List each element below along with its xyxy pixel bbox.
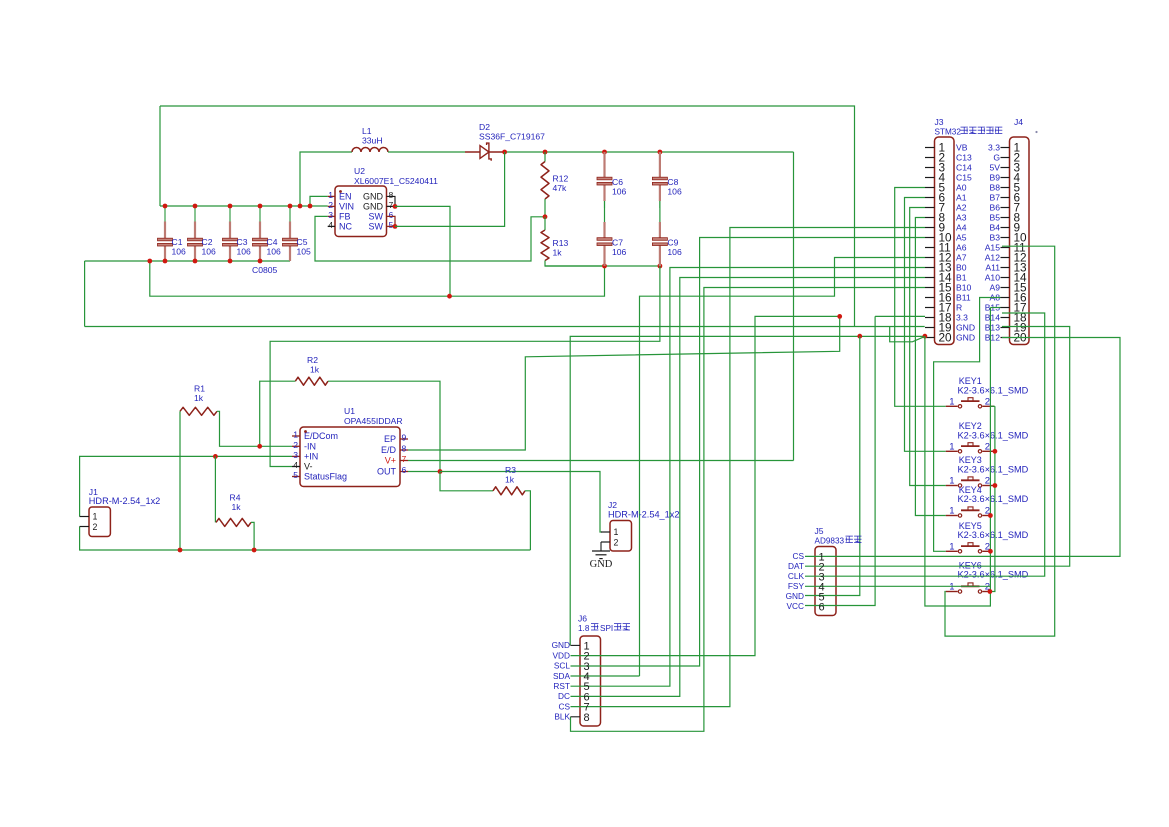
U2 pins 5-8 right — [363, 190, 394, 232]
switch KEY6 — [946, 583, 991, 593]
svg-text:1.8: 1.8 — [578, 624, 590, 633]
capacitor C1 — [158, 206, 173, 261]
svg-text:J5: J5 — [815, 526, 824, 536]
svg-text:VIN: VIN — [339, 201, 354, 211]
svg-text:A5: A5 — [956, 233, 967, 243]
wire cap bottom bus GND — [85, 260, 290, 262]
svg-text:GND: GND — [786, 591, 804, 601]
diode D2 — [465, 143, 505, 161]
wire J2 pin2 to ground — [600, 542, 602, 551]
svg-text:AD9833: AD9833 — [815, 537, 845, 546]
U1 pin1 indicator dot — [304, 430, 307, 433]
J1 pin stubs — [80, 517, 89, 527]
svg-text:5V: 5V — [989, 163, 1000, 173]
wire C8-C9 mid link — [659, 201, 661, 222]
wire FB feedback — [315, 216, 545, 261]
capacitor C3 — [223, 206, 238, 261]
wire J3.6 A1 to KEY2 — [905, 198, 946, 452]
svg-text:A0: A0 — [956, 183, 967, 193]
svg-text:6: 6 — [819, 601, 825, 613]
J3 pin numbers — [939, 141, 953, 345]
svg-text:U1: U1 — [344, 406, 355, 416]
svg-text:1: 1 — [949, 442, 954, 453]
svg-text:A9: A9 — [989, 283, 1000, 293]
capacitor C5 — [283, 206, 298, 261]
J2 pin stubs — [601, 532, 610, 542]
J2 pin numbers — [614, 527, 619, 547]
junction dots output rail — [502, 150, 662, 155]
wire boost output to V+ drop — [793, 152, 795, 461]
svg-text:1k: 1k — [505, 474, 515, 484]
svg-text:B9: B9 — [989, 173, 1000, 183]
wire OUT stub to dot — [408, 471, 440, 473]
svg-text:2: 2 — [985, 442, 990, 453]
junction dot U2 pin5 — [393, 224, 398, 229]
wire R13 bottom lead — [545, 261, 605, 267]
svg-text:K2-3.6×6.1_SMD: K2-3.6×6.1_SMD — [958, 385, 1029, 395]
capacitor C4 — [253, 206, 268, 261]
svg-text:47k: 47k — [553, 183, 568, 193]
wire J4.20 B12 to J5 CS — [805, 338, 1120, 557]
connector J5 body — [815, 547, 836, 616]
svg-text:B0: B0 — [956, 263, 967, 273]
junction dot bus296 at x450 — [447, 294, 452, 299]
svg-text:106: 106 — [667, 186, 682, 196]
svg-text:7: 7 — [402, 454, 407, 464]
junction dot U2 pin7 — [393, 204, 398, 209]
wire bus296 right segment A7-SDA net — [640, 258, 926, 677]
svg-text:SW: SW — [369, 211, 384, 221]
svg-text:A7: A7 — [956, 253, 967, 263]
J3 net name labels — [956, 143, 975, 343]
svg-text:XL6007E1_C5240411: XL6007E1_C5240411 — [354, 176, 438, 186]
svg-text:FSY: FSY — [788, 581, 805, 591]
wire bus266 GND — [545, 265, 660, 267]
U2 pin5 stub — [387, 225, 396, 227]
IC U2 XL6007E1 body — [335, 186, 387, 237]
svg-text:SS36F_C719167: SS36F_C719167 — [479, 132, 545, 142]
svg-text:K2-3.6×6.1_SMD: K2-3.6×6.1_SMD — [958, 464, 1029, 474]
wire J3.14 B1 to J6 DC — [571, 278, 926, 697]
J4 net name labels — [985, 143, 1001, 343]
wire rail left drop — [159, 106, 161, 206]
svg-text:1k: 1k — [232, 502, 242, 512]
value J5 AD9833 module label — [815, 536, 862, 545]
svg-text:EP: EP — [384, 434, 396, 444]
value J3 STM32 board label — [935, 127, 1003, 136]
svg-text:3: 3 — [293, 450, 298, 460]
svg-text:STM32: STM32 — [935, 128, 962, 137]
wire J3.12 A7 to J6 SDA — [571, 675, 640, 677]
svg-text:4: 4 — [293, 460, 298, 470]
svg-text:9: 9 — [402, 433, 407, 443]
wire J3.19 GND bus326 — [85, 326, 925, 328]
wire U2 GND pins 8-7 link — [387, 196, 396, 206]
wire L1 feed riser — [300, 152, 352, 206]
junction dots key pin2 column — [988, 449, 998, 594]
wire R13 top lead — [544, 217, 546, 230]
wire GND left drop to bus326 — [84, 261, 86, 327]
svg-text:A4: A4 — [956, 223, 967, 233]
resistor R3 — [493, 487, 525, 495]
wire KEY5 pin1 to J4 A8 — [934, 298, 1001, 552]
junction dot -IN — [257, 444, 262, 449]
J4 pin stubs — [1001, 148, 1010, 338]
wire R1 left to GND bus — [179, 411, 181, 550]
svg-text:GND: GND — [552, 640, 570, 650]
svg-text:FB: FB — [339, 211, 351, 221]
svg-text:6: 6 — [402, 465, 407, 475]
svg-text:A11: A11 — [985, 263, 1000, 273]
svg-text:NC: NC — [339, 221, 352, 231]
junction dot R12-R13 divider — [543, 214, 548, 219]
svg-text:1: 1 — [949, 506, 954, 517]
svg-text:D2: D2 — [479, 122, 490, 132]
wire J3.15 B10 to J6 BLK — [571, 288, 926, 732]
svg-text:8: 8 — [584, 712, 590, 724]
svg-text:1: 1 — [328, 190, 333, 200]
svg-text:HDR-M-2.54_1x2: HDR-M-2.54_1x2 — [608, 510, 679, 520]
resistor R2 — [295, 377, 328, 385]
svg-text:G: G — [993, 153, 1000, 163]
ground symbol GND — [592, 551, 610, 559]
svg-text:K2-3.6×6.1_SMD: K2-3.6×6.1_SMD — [958, 570, 1029, 580]
svg-text:106: 106 — [202, 246, 217, 256]
wire V+ supply — [408, 460, 794, 462]
wire J3.18 3.3 row segment A — [571, 316, 840, 655]
J6 pin numbers — [584, 640, 590, 723]
wire J4 B15 stub link — [990, 307, 1000, 309]
svg-text:OUT: OUT — [377, 467, 397, 477]
svg-text:20: 20 — [939, 331, 953, 345]
svg-text:8: 8 — [389, 190, 394, 200]
junction dots bus550 — [178, 548, 257, 553]
svg-text:U2: U2 — [354, 166, 365, 176]
svg-text:DC: DC — [558, 691, 570, 701]
svg-text:5: 5 — [389, 220, 394, 230]
wire J3.10 A5 to J6 SCL — [571, 238, 926, 667]
wire KEY6 pin1 to J4 A15 — [945, 246, 1055, 636]
wire 3.3 branch to J5 VCC — [805, 316, 875, 605]
svg-text:VCC: VCC — [786, 601, 804, 611]
wire R3 right to GND bus — [525, 491, 530, 550]
wire key common to J3.20 GND — [925, 336, 991, 606]
svg-text:B8: B8 — [989, 183, 1000, 193]
J4 tiny dot — [1035, 131, 1037, 133]
svg-text:B14: B14 — [985, 313, 1001, 323]
wire cap top bus VIN — [160, 205, 328, 207]
wire analog GND bus550 — [80, 527, 531, 551]
wire OUT to R3 — [440, 472, 493, 491]
switch KEY5 — [946, 543, 991, 553]
svg-text:B5: B5 — [989, 213, 1000, 223]
wire V- net — [270, 266, 660, 467]
svg-text:K2-3.6×6.1_SMD: K2-3.6×6.1_SMD — [958, 530, 1029, 540]
svg-text:K2-3.6×6.1_SMD: K2-3.6×6.1_SMD — [958, 494, 1029, 504]
svg-text:B10: B10 — [956, 283, 972, 293]
wire L1 to D2 — [388, 151, 465, 153]
wire R12 bottom lead — [544, 199, 546, 217]
wire R12 top lead — [544, 152, 546, 162]
wire J3.18 3.3 row segment B — [875, 315, 925, 317]
resistor R13 — [541, 230, 549, 260]
wire OUT to J2 — [440, 472, 602, 533]
svg-text:A10: A10 — [985, 273, 1001, 283]
svg-text:B1: B1 — [956, 273, 967, 283]
switch KEY1 — [946, 398, 994, 408]
svg-text:1k: 1k — [310, 365, 320, 375]
wire J3.5 A0 to KEY1 — [895, 188, 946, 407]
U2 pin7 stub — [387, 205, 396, 207]
J3 pin stubs — [925, 148, 935, 338]
capacitor C7 — [597, 222, 612, 266]
svg-text:106: 106 — [612, 186, 627, 196]
switch KEY3 — [946, 477, 994, 487]
svg-text:1k: 1k — [553, 247, 563, 257]
svg-text:A6: A6 — [956, 243, 967, 253]
wire key2 net vertical B15 — [989, 308, 991, 592]
svg-text:B4: B4 — [989, 223, 1000, 233]
svg-text:VB: VB — [956, 143, 968, 153]
wire J3.13 B0 to J6 RST — [571, 268, 926, 687]
junction dots cap top bus — [163, 204, 313, 209]
svg-text:1: 1 — [614, 527, 619, 537]
svg-text:5: 5 — [293, 470, 298, 480]
switch KEY2 — [946, 443, 994, 453]
switch KEY4 — [946, 507, 991, 517]
wire C6-C7 mid link — [604, 201, 606, 222]
svg-text:106: 106 — [172, 246, 187, 256]
svg-text:1k: 1k — [194, 393, 204, 403]
svg-text:SCL: SCL — [554, 661, 571, 671]
connector J2 body — [610, 521, 632, 552]
value J6 SPI screen label — [578, 624, 630, 633]
svg-text:7: 7 — [389, 200, 394, 210]
svg-text:6: 6 — [389, 210, 394, 220]
svg-text:V-: V- — [304, 462, 313, 472]
svg-text:J3: J3 — [935, 117, 944, 127]
svg-text:C15: C15 — [956, 173, 972, 183]
J6 net name labels — [552, 640, 571, 721]
capacitor C8 — [652, 152, 667, 208]
wire key2 vertical B chain — [990, 406, 995, 591]
svg-text:106: 106 — [612, 247, 627, 257]
svg-text:2: 2 — [985, 476, 990, 487]
junction dot OUT — [438, 469, 443, 474]
U2 pins 1-4 left — [328, 190, 354, 232]
svg-text:1: 1 — [949, 476, 954, 487]
wire bus296 GND segment — [150, 261, 605, 296]
svg-text:1: 1 — [93, 512, 98, 522]
svg-text:B11: B11 — [956, 293, 971, 303]
svg-text:RST: RST — [553, 681, 570, 691]
svg-text:E/D: E/D — [381, 445, 397, 455]
svg-text:A12: A12 — [985, 253, 1001, 263]
svg-text:BLK: BLK — [554, 712, 570, 722]
J1 pin numbers — [93, 512, 98, 532]
wire J3.7 A2 to KEY3 — [910, 208, 946, 486]
wire key2 net vertical keys1-3 — [990, 405, 995, 407]
svg-text:+IN: +IN — [304, 451, 318, 461]
wire J4.18 B14 to J5 CLK — [805, 313, 1045, 576]
inductor L1 — [352, 148, 388, 153]
capacitor C2 — [188, 206, 203, 261]
svg-text:2: 2 — [293, 440, 298, 450]
wire U2 GND to bus296 — [395, 206, 450, 296]
junction dot 3.3 at x839 — [837, 314, 842, 319]
svg-text:SDA: SDA — [553, 671, 571, 681]
resistor R1 — [180, 407, 217, 415]
wire EN tap — [310, 196, 328, 206]
svg-text:CS: CS — [558, 701, 570, 711]
resistor R12 — [541, 162, 549, 200]
svg-text:2: 2 — [985, 397, 990, 408]
svg-text:CLK: CLK — [788, 571, 805, 581]
svg-text:2: 2 — [93, 522, 98, 532]
wire J4.19 B13 to J5 DAT — [805, 327, 1070, 567]
wire GND branch to J5 — [805, 336, 860, 595]
svg-text:C0805: C0805 — [252, 265, 278, 275]
svg-text:J2: J2 — [608, 500, 617, 510]
capacitor C6 — [597, 152, 612, 208]
wire +IN to R4 — [214, 456, 216, 522]
svg-text:A3: A3 — [956, 213, 967, 223]
svg-text:J4: J4 — [1014, 117, 1023, 127]
U2 pin1 indicator dot — [339, 190, 342, 193]
svg-text:106: 106 — [667, 247, 682, 257]
svg-text:StatusFlag: StatusFlag — [304, 472, 347, 482]
svg-text:8: 8 — [402, 444, 407, 454]
wire J3.9 A4 to J6 CS — [571, 228, 926, 707]
svg-text:SPI: SPI — [600, 624, 613, 633]
svg-text:L1: L1 — [362, 126, 372, 136]
wire J5 FSY line — [805, 585, 990, 587]
connector J1 body — [89, 507, 110, 537]
svg-text:OPA455IDDAR: OPA455IDDAR — [344, 416, 403, 426]
svg-text:V+: V+ — [385, 456, 396, 466]
U1 pins 6-9 right — [377, 433, 408, 477]
svg-text:33uH: 33uH — [362, 136, 383, 146]
svg-text:C13: C13 — [956, 153, 972, 163]
svg-text:B6: B6 — [989, 203, 1000, 213]
IC U1 OPA455IDDAR body — [300, 427, 400, 487]
svg-text:J6: J6 — [578, 614, 587, 624]
svg-text:2: 2 — [328, 200, 333, 210]
svg-text:3.3: 3.3 — [988, 143, 1000, 153]
connector J4 body — [1010, 137, 1030, 345]
wire U2 SW pins 6-5 link — [387, 216, 396, 226]
svg-text:106: 106 — [267, 246, 282, 256]
svg-text:GND: GND — [363, 201, 384, 211]
svg-text:1: 1 — [949, 397, 954, 408]
svg-text:CS: CS — [792, 551, 804, 561]
J4 pin numbers — [1014, 141, 1028, 345]
resistor R4 — [216, 518, 251, 526]
junction dots cap bottom bus — [147, 259, 262, 264]
wire R1 right to -IN — [217, 411, 292, 446]
svg-text:SW: SW — [369, 221, 384, 231]
junction dot +IN — [213, 454, 218, 459]
svg-text:VDD: VDD — [552, 650, 570, 660]
U1 pins 1-5 left — [292, 430, 347, 482]
svg-text:-IN: -IN — [304, 441, 316, 451]
svg-text:A15: A15 — [985, 243, 1001, 253]
svg-text:GND: GND — [363, 191, 384, 201]
svg-text:DAT: DAT — [788, 561, 804, 571]
wire top rail net — [160, 106, 855, 327]
J5 pin stubs — [0, 0, 1, 1]
junction dots GND bus336 — [857, 334, 927, 339]
J5 net name labels — [786, 551, 805, 611]
svg-text:B3: B3 — [989, 233, 1000, 243]
svg-text:R2: R2 — [307, 355, 318, 365]
J5 pin numbers — [819, 551, 825, 613]
svg-text:B7: B7 — [989, 193, 1000, 203]
wire SW to diode cathode — [395, 152, 505, 226]
svg-text:106: 106 — [237, 246, 252, 256]
wire R2 right to OUT — [328, 381, 440, 471]
junction dots bus266 — [602, 264, 662, 269]
svg-text:1: 1 — [949, 542, 954, 553]
wire E/D to 3.3 diagonal — [408, 316, 840, 450]
svg-text:GND: GND — [590, 559, 613, 570]
svg-text:105: 105 — [297, 246, 312, 256]
svg-text:1: 1 — [949, 582, 954, 593]
svg-text:GND: GND — [956, 323, 975, 333]
svg-text:3.3: 3.3 — [956, 313, 968, 323]
svg-text:3: 3 — [328, 210, 333, 220]
svg-text:HDR-M-2.54_1x2: HDR-M-2.54_1x2 — [89, 496, 160, 506]
svg-text:C14: C14 — [956, 163, 972, 173]
svg-text:E/DCom: E/DCom — [304, 431, 338, 441]
wire +IN line from J1 — [80, 456, 292, 516]
capacitor C9 — [652, 222, 667, 266]
wire J3.20 GND bus336 — [570, 336, 925, 645]
svg-text:GND: GND — [956, 333, 975, 343]
wire R2 left to -IN — [260, 381, 296, 446]
svg-text:EN: EN — [339, 191, 352, 201]
J6 pin stubs — [571, 645, 581, 716]
svg-text:R: R — [956, 303, 962, 313]
wire J3.8 A3 to KEY4 — [915, 218, 945, 516]
svg-text:A1: A1 — [956, 193, 967, 203]
svg-text:2: 2 — [614, 537, 619, 547]
wire boost output rail — [505, 151, 794, 153]
svg-text:K2-3.6×6.1_SMD: K2-3.6×6.1_SMD — [958, 430, 1029, 440]
svg-text:A2: A2 — [956, 203, 967, 213]
connector J3 body — [935, 137, 955, 345]
wire R4 right to GND bus — [251, 522, 254, 550]
svg-text:B13: B13 — [985, 323, 1001, 333]
connector J6 body — [580, 636, 601, 726]
svg-text:1: 1 — [293, 430, 298, 440]
svg-text:4: 4 — [328, 220, 333, 230]
wire GND zigzag link pin19 to pin20 — [890, 327, 925, 342]
svg-text:B12: B12 — [985, 333, 1001, 343]
